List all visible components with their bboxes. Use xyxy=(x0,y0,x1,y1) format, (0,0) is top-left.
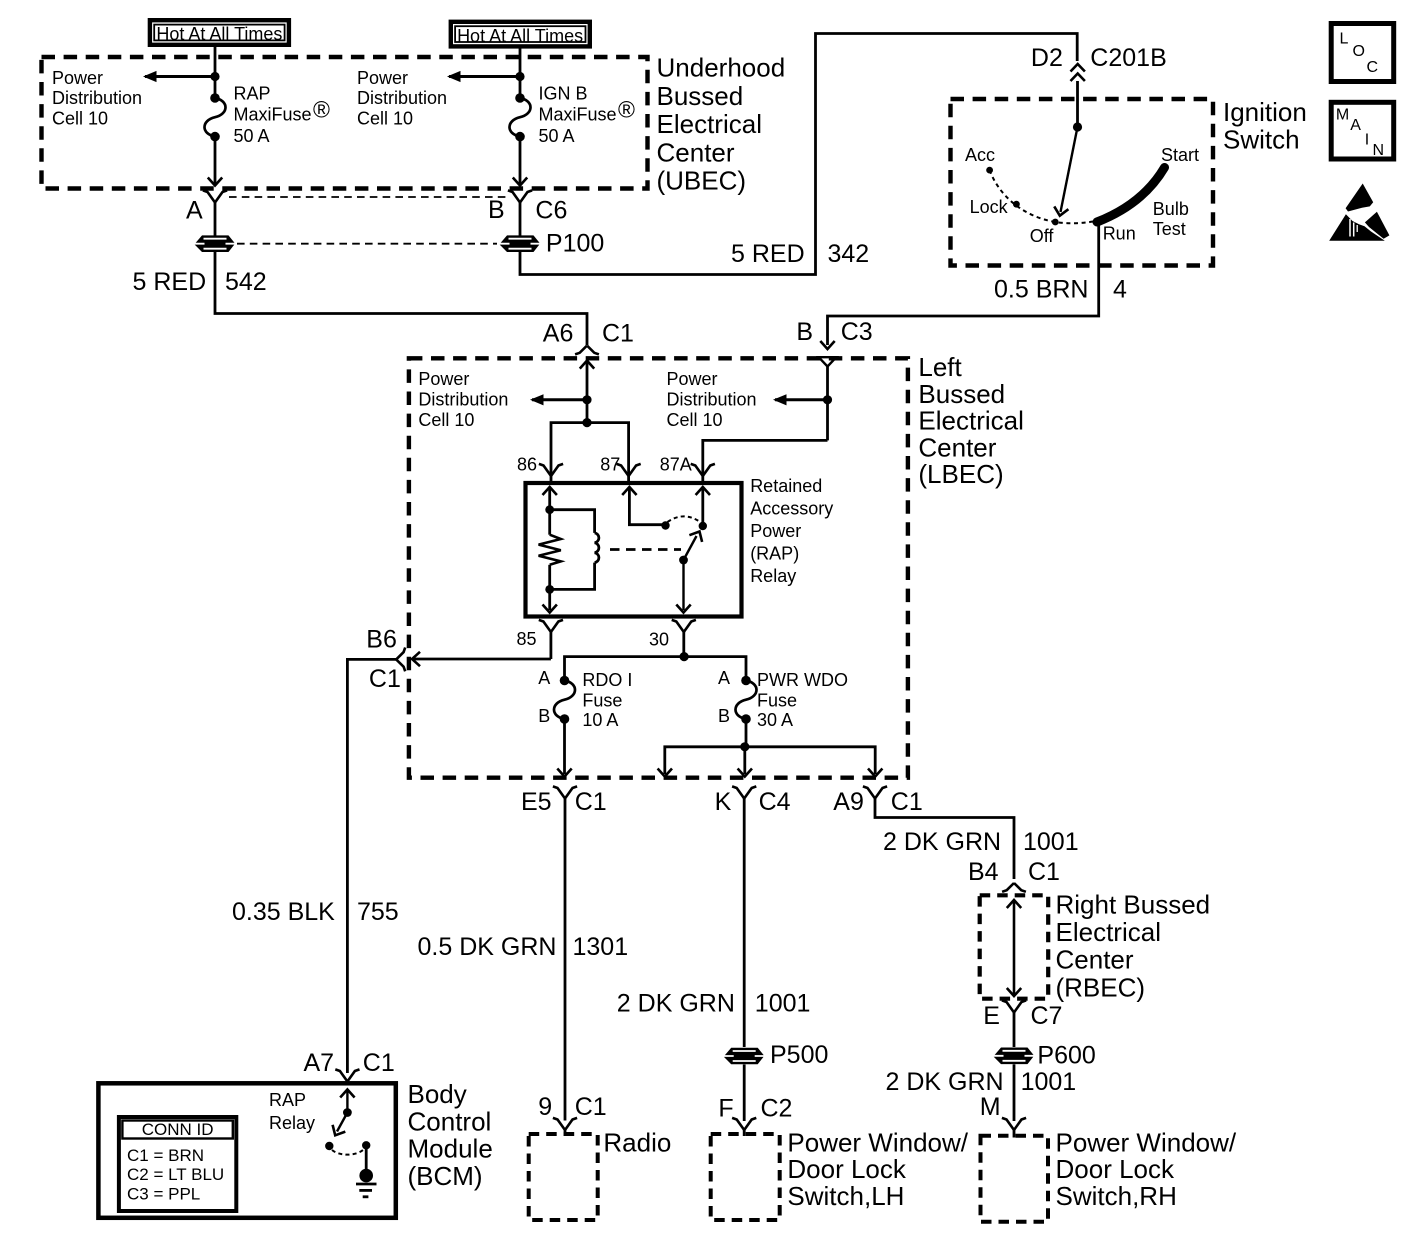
svg-text:Switch: Switch xyxy=(1223,125,1300,155)
svg-text:(UBEC): (UBEC) xyxy=(657,166,747,196)
svg-text:C: C xyxy=(1367,59,1379,76)
svg-text:C6: C6 xyxy=(535,196,567,224)
BCM relay blade arrow xyxy=(329,1113,348,1139)
connector A7 C1 Y xyxy=(335,1069,359,1081)
svg-text:C201B: C201B xyxy=(1090,44,1166,72)
svg-text:Cell 10: Cell 10 xyxy=(667,410,723,430)
svg-text:C3 = PPL: C3 = PPL xyxy=(127,1185,200,1204)
wire pin 30 to fuse feeds xyxy=(565,657,747,676)
svg-text:Center: Center xyxy=(1056,945,1134,975)
svg-text:IGN B: IGN B xyxy=(539,84,588,104)
svg-text:CONN ID: CONN ID xyxy=(142,1120,214,1139)
svg-text:F: F xyxy=(718,1095,733,1123)
node blade pivot dot xyxy=(679,556,688,565)
svg-text:B: B xyxy=(538,706,550,726)
connector A9 C1 Y xyxy=(863,786,887,798)
svg-text:I: I xyxy=(1365,132,1369,149)
svg-text:Cell 10: Cell 10 xyxy=(52,109,108,129)
svg-text:Electrical: Electrical xyxy=(918,406,1023,436)
connector A6 C1: male arrow inside LBEC xyxy=(580,361,594,423)
wire arrow to Power Distribution Cell 10 (right) xyxy=(447,71,520,82)
power window door lock switch LH dashed box xyxy=(711,1134,780,1220)
svg-text:®: ® xyxy=(618,97,635,123)
svg-text:RAP: RAP xyxy=(269,1090,306,1110)
node junction dot (A6 feed) xyxy=(582,395,591,404)
coil L1 xyxy=(595,533,599,563)
svg-text:Radio: Radio xyxy=(603,1127,671,1157)
label box "Hot At All Times" (right) xyxy=(451,22,590,47)
ground symbol xyxy=(356,1145,377,1197)
pin 87 inner arrow wire xyxy=(622,487,665,525)
svg-text:Fuse: Fuse xyxy=(582,690,622,710)
svg-text:E: E xyxy=(983,1002,1000,1030)
node contact 87A dot xyxy=(699,522,707,530)
svg-text:D2: D2 xyxy=(1031,44,1063,72)
svg-text:A: A xyxy=(538,668,550,688)
fuse IGN B MaxiFuse 50 A xyxy=(510,93,531,141)
LOC reference box xyxy=(1331,24,1394,82)
CONN ID table xyxy=(119,1117,236,1211)
svg-text:(RAP): (RAP) xyxy=(750,544,799,564)
wire from C201B into ignition switch xyxy=(1076,81,1079,127)
svg-text:Test: Test xyxy=(1153,219,1186,239)
svg-text:MaxiFuse: MaxiFuse xyxy=(539,105,617,125)
connector Y (terminal B of C6) xyxy=(508,190,532,235)
node RAP relay switch pivot dot xyxy=(343,1108,352,1117)
wire exit arrow (right branch A9) xyxy=(868,769,882,777)
svg-text:A9: A9 xyxy=(833,788,864,816)
ignition switch dashed box xyxy=(951,99,1214,266)
dashed detent arc Acc-Lock-Off-Run xyxy=(990,170,1099,223)
svg-text:Module: Module xyxy=(408,1134,493,1164)
svg-text:C4: C4 xyxy=(759,788,791,816)
svg-text:4: 4 xyxy=(1113,275,1127,303)
pin 86 inner arrow wire xyxy=(543,487,557,535)
svg-text:Power: Power xyxy=(357,68,408,88)
svg-text:87A: 87A xyxy=(660,455,692,475)
UBEC dashed box xyxy=(42,57,648,189)
svg-text:Power: Power xyxy=(750,521,801,541)
svg-text:50 A: 50 A xyxy=(234,126,270,146)
svg-text:P100: P100 xyxy=(546,230,604,258)
connector E5 C1 Y xyxy=(553,786,577,1120)
connector B4 C1 lambda xyxy=(1002,883,1026,892)
svg-text:C7: C7 xyxy=(1031,1002,1063,1030)
svg-text:N: N xyxy=(1373,142,1385,159)
BCM solid box xyxy=(98,1083,395,1218)
svg-text:Hot At All Times: Hot At All Times xyxy=(156,24,282,44)
svg-text:L: L xyxy=(1340,31,1349,48)
svg-text:C1: C1 xyxy=(891,788,923,816)
svg-text:M: M xyxy=(980,1093,1001,1121)
relay movable blade arrow xyxy=(684,528,706,560)
pin 30 Y connector below relay xyxy=(672,620,696,657)
node junction dot (pin 30 feed) xyxy=(680,652,689,661)
svg-text:MaxiFuse: MaxiFuse xyxy=(234,105,312,125)
svg-text:Distribution: Distribution xyxy=(418,390,508,410)
connector C201B double chevron xyxy=(1071,64,1085,81)
svg-text:Power Window/: Power Window/ xyxy=(1056,1127,1237,1157)
pin 87 Y connector xyxy=(617,464,641,483)
wire from Hot box 2 down through UBEC xyxy=(519,46,522,98)
pin 85 inner arrow xyxy=(543,605,557,613)
power window door lock switch RH dashed box xyxy=(981,1136,1049,1222)
svg-text:Cell 10: Cell 10 xyxy=(418,410,474,430)
svg-text:Bussed: Bussed xyxy=(657,81,744,111)
svg-text:E5: E5 xyxy=(521,788,552,816)
svg-text:1001: 1001 xyxy=(1021,1068,1077,1096)
wire from fuse down to UBEC border with arrow xyxy=(513,137,527,186)
wire 5 RED 342 : P100-B down, right, up, right to C201B xyxy=(520,34,1077,275)
svg-text:C1: C1 xyxy=(575,1093,607,1121)
relay U1 box xyxy=(526,483,742,617)
wire arrow to Power Distribution Cell 10 (left) xyxy=(143,71,215,82)
svg-text:Lock: Lock xyxy=(970,197,1009,217)
svg-text:Control: Control xyxy=(408,1106,492,1136)
connector 9 C1 Y xyxy=(553,1118,577,1136)
wire resistor bottom lead xyxy=(548,565,551,610)
dashed tie line between connector A and B xyxy=(229,196,506,198)
node contact 87 dot xyxy=(661,521,669,529)
dashed throw arc (BCM relay) xyxy=(332,1150,363,1155)
pin 87A Y connector xyxy=(691,464,715,483)
svg-text:30: 30 xyxy=(649,629,669,649)
svg-text:C1 = BRN: C1 = BRN xyxy=(127,1146,204,1165)
position dot Off xyxy=(1052,219,1059,226)
svg-text:(RBEC): (RBEC) xyxy=(1056,972,1146,1002)
wire 0.35 BLK 755 from B6 to BCM xyxy=(347,659,396,1073)
connector M Y xyxy=(1002,1118,1026,1138)
svg-text:C1: C1 xyxy=(369,665,401,693)
svg-text:1001: 1001 xyxy=(1023,828,1079,856)
svg-text:C1: C1 xyxy=(1028,858,1060,886)
dashed tie line between P100 halves xyxy=(237,243,497,245)
RBEC internal bus double arrow xyxy=(1007,900,1021,996)
fuse RAP MaxiFuse 50 A xyxy=(205,93,226,141)
ESD sensitive device symbol xyxy=(1329,184,1389,241)
node pivot dot xyxy=(1073,122,1082,131)
svg-text:Distribution: Distribution xyxy=(667,390,757,410)
svg-text:2 DK GRN: 2 DK GRN xyxy=(617,989,735,1017)
connector E C7 Y xyxy=(1002,1000,1026,1047)
svg-text:Accessory: Accessory xyxy=(750,499,833,519)
svg-text:Center: Center xyxy=(657,137,735,167)
wire from fuse down to UBEC border with arrow xyxy=(208,137,222,186)
svg-text:5 RED: 5 RED xyxy=(133,268,207,296)
svg-text:Acc: Acc xyxy=(965,145,995,165)
node junction dot (86/87 split) xyxy=(582,418,591,427)
svg-text:C1: C1 xyxy=(363,1049,395,1077)
svg-text:P500: P500 xyxy=(770,1041,828,1069)
fuse PWR WDO 30 A xyxy=(736,676,757,724)
label box "Hot At All Times" (left) xyxy=(150,20,289,45)
svg-text:A7: A7 xyxy=(304,1049,335,1077)
svg-text:Relay: Relay xyxy=(750,566,796,586)
connector A6 C1: lambda end of incoming wire xyxy=(575,346,599,355)
svg-text:Ignition: Ignition xyxy=(1223,97,1307,127)
svg-text:A: A xyxy=(186,197,203,225)
wire pin 85 to B6 C1 exit xyxy=(412,652,551,666)
wire 0.5 BRN 4 : Run contact down, left, to B C3 xyxy=(828,222,1099,345)
svg-text:C3: C3 xyxy=(841,318,873,346)
svg-text:10 A: 10 A xyxy=(582,710,618,730)
svg-text:9: 9 xyxy=(538,1093,552,1121)
svg-text:342: 342 xyxy=(828,240,870,268)
svg-text:RDO I: RDO I xyxy=(582,670,632,690)
wire from Hot box 1 down through UBEC xyxy=(214,45,217,98)
svg-text:A: A xyxy=(1350,117,1361,134)
svg-text:Right Bussed: Right Bussed xyxy=(1056,889,1211,919)
svg-text:5 RED: 5 RED xyxy=(731,240,805,268)
svg-text:PWR WDO: PWR WDO xyxy=(757,670,848,690)
svg-text:Left: Left xyxy=(918,352,962,382)
svg-text:Power: Power xyxy=(418,369,469,389)
svg-text:Cell 10: Cell 10 xyxy=(357,109,413,129)
wire RDO I fuse output to E5 exit arrow xyxy=(557,719,571,777)
pin 87A inner arrow wire xyxy=(696,487,710,526)
svg-text:2 DK GRN: 2 DK GRN xyxy=(886,1068,1004,1096)
svg-text:Relay: Relay xyxy=(269,1113,315,1133)
wire PWR WDO fuse output with branch xyxy=(665,719,875,774)
MAIN reference box xyxy=(1331,102,1394,159)
wire 2 DK GRN 1001 P600 to M xyxy=(1013,1064,1016,1121)
switch blade arrow (wiper) xyxy=(1053,127,1078,217)
connector K C4 Y xyxy=(732,786,756,1047)
svg-text:Electrical: Electrical xyxy=(657,109,762,139)
node BCM contact dot xyxy=(325,1142,333,1150)
connector B6 C1 female half at LBEC border xyxy=(396,648,405,672)
svg-text:B: B xyxy=(718,706,730,726)
connector B C3: open triangle female half xyxy=(819,357,837,366)
svg-text:Start: Start xyxy=(1161,145,1199,165)
svg-text:(LBEC): (LBEC) xyxy=(918,459,1003,489)
wire arrow to Power Distribution Cell 10 (LBEC right) xyxy=(773,394,828,405)
svg-text:C2 = LT BLU: C2 = LT BLU xyxy=(127,1165,224,1184)
wire coil bottom lead xyxy=(550,563,595,590)
svg-text:Run: Run xyxy=(1103,223,1136,243)
svg-text:0.5 BRN: 0.5 BRN xyxy=(994,275,1088,303)
svg-text:50 A: 50 A xyxy=(539,126,575,146)
wire exit arrow (middle branch K) xyxy=(738,769,752,777)
svg-text:B6: B6 xyxy=(366,625,397,653)
svg-text:A: A xyxy=(718,668,730,688)
resistor (relay suppression) xyxy=(539,535,561,565)
node junction dot (IGN B feed) xyxy=(515,72,524,81)
svg-text:Door Lock: Door Lock xyxy=(1056,1154,1175,1184)
svg-text:B4: B4 xyxy=(968,858,999,886)
svg-text:Bussed: Bussed xyxy=(918,379,1005,409)
svg-text:K: K xyxy=(715,788,732,816)
wire from B junction to pin 87A xyxy=(703,440,828,476)
dashed actuation linkage from coil to blade xyxy=(610,548,681,551)
radio dashed box xyxy=(529,1134,598,1220)
wire 5 RED 542 : P100-A down, right, to A6 C1 xyxy=(215,252,587,345)
svg-text:85: 85 xyxy=(517,629,537,649)
svg-text:Switch,LH: Switch,LH xyxy=(787,1181,904,1211)
inline connector P100 (terminal A side) xyxy=(195,235,235,252)
pin 85 Y connector below relay xyxy=(539,620,563,659)
svg-text:M: M xyxy=(1336,107,1349,124)
svg-text:2 DK GRN: 2 DK GRN xyxy=(883,828,1001,856)
svg-text:O: O xyxy=(1353,43,1365,60)
thick arc Run to Start (bulb test range) xyxy=(1097,168,1165,223)
connector F C2 Y xyxy=(732,1118,756,1136)
connector Y (terminal A of C6) xyxy=(203,190,227,235)
node coil top dot xyxy=(545,505,554,514)
fuse RDO I 10 A xyxy=(554,676,575,724)
svg-text:30 A: 30 A xyxy=(757,710,793,730)
wire coil top lead xyxy=(550,510,595,533)
wire split to pins 86 and 87 xyxy=(551,423,629,476)
svg-text:Power: Power xyxy=(52,68,103,88)
node ground-side contact dot xyxy=(362,1141,370,1149)
svg-text:86: 86 xyxy=(517,455,537,475)
node junction dot (RAP feed) xyxy=(210,72,219,81)
wire from B C3 down to junction xyxy=(826,367,829,441)
svg-text:Off: Off xyxy=(1030,226,1055,246)
BCM internal arrow (A7 male) xyxy=(340,1090,354,1113)
svg-text:0.35 BLK: 0.35 BLK xyxy=(232,898,335,926)
RBEC dashed box xyxy=(980,895,1048,998)
inline connector P500 xyxy=(724,1048,764,1065)
svg-text:Electrical: Electrical xyxy=(1056,917,1161,947)
LBEC dashed box xyxy=(409,358,908,777)
svg-text:Distribution: Distribution xyxy=(357,88,447,108)
svg-text:Door Lock: Door Lock xyxy=(787,1154,906,1184)
svg-text:A6: A6 xyxy=(543,319,574,347)
svg-text:(BCM): (BCM) xyxy=(408,1161,483,1191)
svg-text:Power: Power xyxy=(667,369,718,389)
wire exit arrow (left branch) xyxy=(658,769,672,777)
position dot Lock xyxy=(1013,201,1020,208)
svg-text:542: 542 xyxy=(225,268,267,296)
svg-text:Power Window/: Power Window/ xyxy=(787,1127,968,1157)
svg-text:B: B xyxy=(488,196,505,224)
svg-text:Underhood: Underhood xyxy=(657,53,786,83)
svg-text:1301: 1301 xyxy=(573,933,629,961)
svg-text:C1: C1 xyxy=(575,788,607,816)
wire arrow to Power Distribution Cell 10 (LBEC left) xyxy=(530,394,587,405)
svg-text:®: ® xyxy=(313,97,330,123)
node coil bottom dot xyxy=(545,585,554,594)
pin 30 inner wire arrow xyxy=(676,560,690,613)
wire P500 to F C2 xyxy=(743,1065,746,1122)
svg-text:P600: P600 xyxy=(1037,1042,1095,1070)
node junction dot (B feed) xyxy=(823,395,832,404)
svg-text:B: B xyxy=(796,318,813,346)
connector B C3: arrow end of incoming wire xyxy=(820,341,834,349)
svg-text:Retained: Retained xyxy=(750,476,822,496)
svg-text:755: 755 xyxy=(357,898,399,926)
wire 2 DK GRN 1001 from A9 to B4 xyxy=(875,799,1014,880)
dashed contact throw arc xyxy=(668,516,702,522)
svg-text:C1: C1 xyxy=(602,319,634,347)
svg-text:Distribution: Distribution xyxy=(52,88,142,108)
svg-text:C2: C2 xyxy=(761,1095,793,1123)
svg-text:Body: Body xyxy=(408,1079,467,1109)
inline connector P100 (terminal B side) xyxy=(500,235,540,252)
svg-text:RAP: RAP xyxy=(234,84,271,104)
svg-text:Switch,RH: Switch,RH xyxy=(1056,1181,1177,1211)
inline connector P600 xyxy=(994,1048,1034,1065)
node junction dot (PWR WDO output) xyxy=(740,742,749,751)
svg-text:Hot At All Times: Hot At All Times xyxy=(457,26,583,46)
svg-text:Center: Center xyxy=(918,432,996,462)
svg-text:0.5 DK GRN: 0.5 DK GRN xyxy=(418,933,557,961)
svg-text:1001: 1001 xyxy=(755,989,811,1017)
svg-text:Fuse: Fuse xyxy=(757,690,797,710)
pin 86 Y connector xyxy=(539,464,563,483)
position dot Acc xyxy=(986,167,993,174)
svg-text:Bulb: Bulb xyxy=(1153,199,1189,219)
